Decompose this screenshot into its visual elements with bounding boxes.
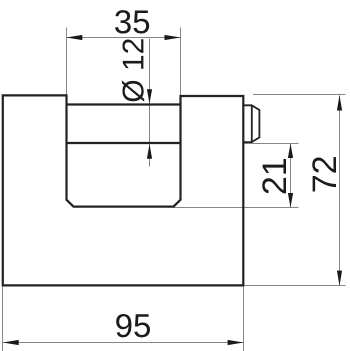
dimension line 35 <box>66 37 180 39</box>
extension line top of dim 21 <box>243 143 298 145</box>
dimension text 21 <box>262 159 286 193</box>
pin chamfer base line <box>251 105 253 142</box>
dimension text diameter 12 <box>122 39 144 101</box>
padlock body outline <box>3 95 244 285</box>
shackle bar bottom line <box>67 142 181 144</box>
arrow bottom of dim 12 <box>147 144 152 159</box>
dimension leader line diameter 12 <box>149 39 151 167</box>
dimension line 21 <box>290 144 292 208</box>
extension line bottom of dim 21 <box>174 207 299 209</box>
pin on right side <box>243 105 259 142</box>
extension line left of dim 95 <box>2 286 4 351</box>
extension line bottom of dim 72 <box>245 285 346 287</box>
dimension text 95 <box>116 314 150 337</box>
arrow right of dim 35 <box>165 35 181 40</box>
extension line top of dim 72 <box>253 94 346 96</box>
dimension line 95 <box>3 342 244 344</box>
arrow left of dim 95 <box>3 340 19 345</box>
arrow top of dim 21 <box>288 144 293 159</box>
dimension line 72 <box>339 95 341 285</box>
dimension text 35 <box>115 10 149 33</box>
extension line left of dim 35 <box>66 28 68 95</box>
arrow top of dim 72 <box>337 95 342 110</box>
arrow right of dim 95 <box>228 340 244 345</box>
arrow bottom of dim 21 <box>288 193 293 208</box>
extension line right of dim 95 <box>243 286 245 351</box>
dimension text 72 <box>312 157 336 191</box>
extension line right of dim 35 <box>180 28 182 96</box>
arrow bottom of dim 72 <box>337 271 342 286</box>
arrow top of dim 12 <box>147 89 152 103</box>
shackle bar top line <box>67 103 181 105</box>
arrow left of dim 35 <box>66 35 82 40</box>
